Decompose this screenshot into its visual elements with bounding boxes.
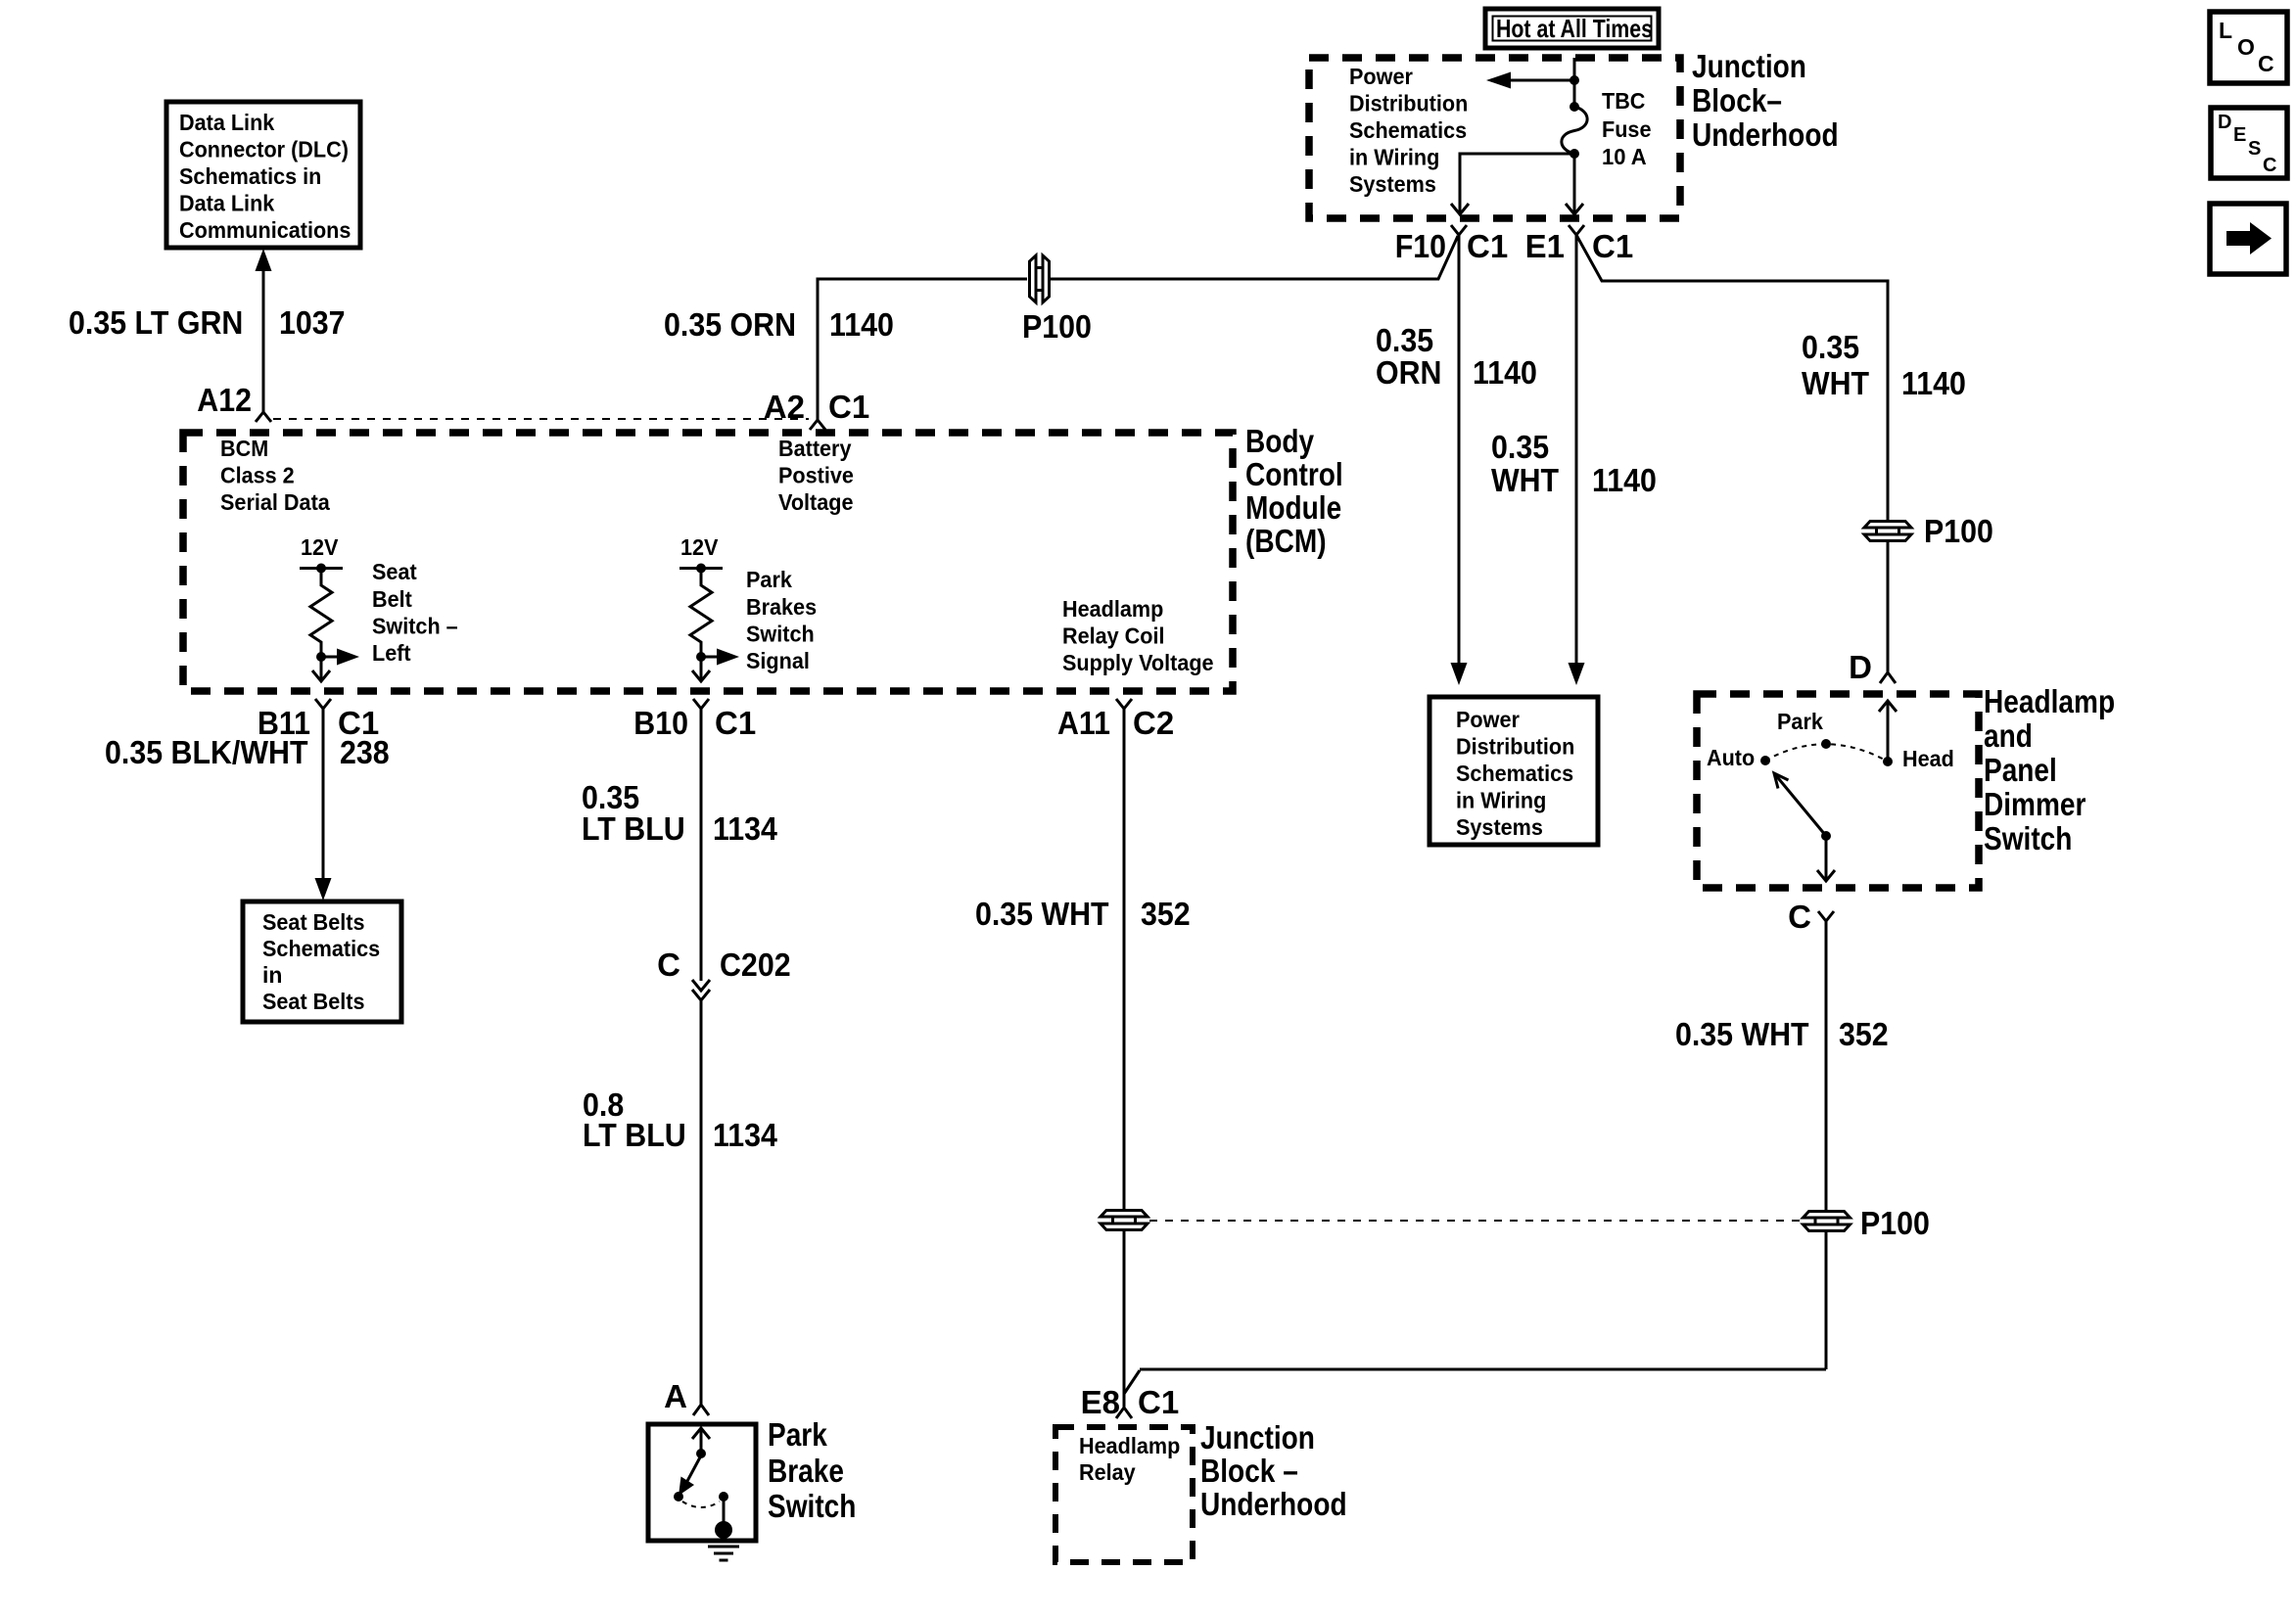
connector C202 pass-through (double chevron) xyxy=(657,947,790,1000)
label: Junction Block-Underhood (top) xyxy=(1692,48,1839,153)
component: Park Brake Switch box xyxy=(648,1424,756,1541)
box: DESC legend xyxy=(2211,108,2287,178)
svg-text:0.35: 0.35 xyxy=(1802,329,1859,365)
svg-text:C1: C1 xyxy=(828,389,869,425)
svg-text:C1: C1 xyxy=(1138,1384,1179,1420)
wire: park brake sense to pin B10 xyxy=(700,657,703,679)
svg-text:Hot at All Times: Hot at All Times xyxy=(1496,14,1653,43)
svg-text:WHT: WHT xyxy=(1491,462,1559,498)
svg-text:E: E xyxy=(2233,124,2246,146)
svg-text:Dimmer: Dimmer xyxy=(1984,786,2086,822)
dashed travel arc of dimmer switch xyxy=(1765,744,1888,762)
label: Park Brake Switch xyxy=(768,1416,856,1524)
arrow (open) entering dimmer switch at D xyxy=(1879,701,1897,712)
component: Headlamp Relay dashed box xyxy=(1055,1427,1193,1562)
svg-text:E1: E1 xyxy=(1525,228,1565,264)
svg-text:Schematics: Schematics xyxy=(1456,761,1573,786)
svg-text:Supply Voltage: Supply Voltage xyxy=(1062,650,1214,675)
node: dimmer switch pivot xyxy=(1821,831,1831,841)
svg-text:Head: Head xyxy=(1902,746,1954,771)
svg-text:Fuse: Fuse xyxy=(1602,116,1652,142)
label: Seat Belt Switch - Left xyxy=(372,559,458,666)
switch arm with arrowhead xyxy=(679,1455,701,1496)
svg-text:1140: 1140 xyxy=(1473,354,1537,391)
box: Seat Belts schematic reference xyxy=(243,901,401,1022)
svg-text:Underhood: Underhood xyxy=(1200,1486,1347,1522)
svg-text:Park: Park xyxy=(1777,709,1823,734)
pin A park brake switch connector fork xyxy=(664,1378,709,1415)
pin C dimmer switch connector fork xyxy=(1788,899,1834,935)
svg-text:A12: A12 xyxy=(197,382,252,418)
label: wire 0.35 BLK/WHT 238 xyxy=(105,734,390,770)
pin B11 connector fork xyxy=(258,699,379,741)
resistor: seat belt switch pull-up xyxy=(310,569,332,658)
svg-text:P100: P100 xyxy=(1860,1205,1930,1241)
svg-text:Park: Park xyxy=(746,567,792,592)
svg-text:P100: P100 xyxy=(1924,513,1993,549)
svg-text:Schematics: Schematics xyxy=(1349,117,1467,143)
wire: fuse output to E1 xyxy=(1573,154,1576,212)
arrowhead into power distribution box xyxy=(1451,663,1468,685)
svg-text:C: C xyxy=(2258,51,2274,76)
svg-text:B10: B10 xyxy=(633,705,688,741)
svg-text:352: 352 xyxy=(1839,1016,1889,1052)
label: Park Brakes Switch Signal xyxy=(746,567,817,673)
svg-text:Voltage: Voltage xyxy=(778,489,854,515)
svg-text:0.35: 0.35 xyxy=(1376,322,1433,358)
node: 12V supply seat belt switch pull-up xyxy=(300,534,343,574)
node: ground stud on box edge xyxy=(715,1521,732,1539)
svg-text:E8: E8 xyxy=(1081,1384,1120,1420)
svg-text:ORN: ORN xyxy=(1376,354,1442,391)
svg-text:352: 352 xyxy=(1141,896,1191,932)
wire: D to Head contact xyxy=(1887,701,1890,759)
svg-text:Headlamp: Headlamp xyxy=(1079,1433,1180,1458)
svg-text:1140: 1140 xyxy=(1592,462,1657,498)
svg-text:1037: 1037 xyxy=(279,304,346,341)
label: Headlamp and Panel Dimmer Switch xyxy=(1984,683,2115,856)
svg-text:Left: Left xyxy=(372,640,411,666)
svg-text:A2: A2 xyxy=(764,389,805,425)
svg-text:C1: C1 xyxy=(1467,228,1508,264)
arrow (open) at BCM boundary xyxy=(692,670,710,681)
svg-text:S: S xyxy=(2248,138,2261,160)
svg-text:C1: C1 xyxy=(715,705,756,741)
wire: LT GRN 1037 serial data to DLC xyxy=(262,266,265,412)
svg-text:Power: Power xyxy=(1456,707,1520,732)
svg-text:Systems: Systems xyxy=(1456,814,1543,840)
svg-text:Distribution: Distribution xyxy=(1456,734,1574,760)
pin D dimmer switch connector fork xyxy=(1849,649,1896,685)
svg-text:C202: C202 xyxy=(720,947,791,983)
label: wire 0.35 LT GRN 1037 xyxy=(69,304,346,341)
svg-text:Switch: Switch xyxy=(768,1488,856,1524)
svg-text:Brake: Brake xyxy=(768,1453,844,1489)
svg-text:Communications: Communications xyxy=(179,217,351,243)
connector P100 pass-through on 352 wire xyxy=(1801,1205,1930,1241)
pin A2 connector fork xyxy=(764,389,869,430)
component: Junction Block-Underhood dashed box (top) xyxy=(1309,58,1680,218)
arrowhead into seat belts box xyxy=(315,878,332,901)
svg-text:Systems: Systems xyxy=(1349,171,1436,197)
svg-text:L: L xyxy=(2219,18,2232,43)
svg-text:Headlamp: Headlamp xyxy=(1062,596,1163,622)
connector P100 pass-through on right WHT wire xyxy=(1862,513,1993,549)
arrow (open) at junction block boundary F10 xyxy=(1451,204,1469,214)
svg-text:Battery: Battery xyxy=(778,436,852,461)
svg-text:Module: Module xyxy=(1245,489,1341,526)
pin E8 connector fork xyxy=(1081,1384,1180,1420)
box: Data Link Connector (DLC) reference xyxy=(166,102,360,248)
wire: 0.35 WHT 352 from C to P100 xyxy=(1825,921,1828,1369)
node: Auto contact xyxy=(1707,745,1770,770)
arrow (open) at dimmer switch boundary C xyxy=(1817,870,1835,881)
label: TBC Fuse 10 A xyxy=(1602,88,1652,169)
svg-text:Schematics in: Schematics in xyxy=(179,163,321,189)
wire: dashed link A12 to A2 xyxy=(273,418,809,420)
label: wire 0.35 ORN 1140 (horizontal run) xyxy=(664,306,894,343)
label: Headlamp Relay Coil Supply Voltage xyxy=(1062,596,1214,675)
label: BCM Class 2 Serial Data xyxy=(220,436,330,515)
svg-text:Switch –: Switch – xyxy=(372,614,458,639)
wire: 0.35 WHT 352 from A11 to E8 xyxy=(1123,709,1126,1408)
label: wire 0.35 LT BLU 1134 xyxy=(582,779,777,847)
svg-text:LT BLU: LT BLU xyxy=(582,810,685,847)
arrow (open) at BCM boundary xyxy=(312,670,330,681)
svg-text:12V: 12V xyxy=(301,534,339,560)
svg-text:in Wiring: in Wiring xyxy=(1456,788,1546,813)
module: Body Control Module (BCM) dashed outline xyxy=(183,433,1233,691)
svg-text:10 A: 10 A xyxy=(1602,144,1647,169)
svg-text:0.35 LT GRN: 0.35 LT GRN xyxy=(69,304,243,341)
svg-text:Switch: Switch xyxy=(746,622,815,647)
switch lever with open arrowhead toward Auto xyxy=(1774,773,1826,836)
wire: pivot to C pin xyxy=(1825,836,1828,879)
svg-text:LT BLU: LT BLU xyxy=(583,1117,686,1153)
svg-text:Switch: Switch xyxy=(1984,820,2072,856)
svg-text:Data Link: Data Link xyxy=(179,110,274,135)
svg-text:Brakes: Brakes xyxy=(746,594,817,620)
svg-text:C1: C1 xyxy=(1592,228,1633,264)
pin E1 connector fork xyxy=(1525,225,1634,264)
svg-text:BCM: BCM xyxy=(220,436,268,461)
label: Battery Postive Voltage xyxy=(778,436,854,515)
svg-text:12V: 12V xyxy=(680,534,719,560)
resistor: park brake switch pull-up xyxy=(690,569,712,658)
svg-text:1134: 1134 xyxy=(713,1117,777,1153)
svg-text:Park: Park xyxy=(768,1416,827,1453)
svg-text:D: D xyxy=(1849,649,1872,685)
svg-text:Panel: Panel xyxy=(1984,752,2057,788)
node: fuse bottom terminal xyxy=(1570,149,1579,159)
svg-text:Block–: Block– xyxy=(1692,82,1782,118)
fuse: TBC Fuse 10 A xyxy=(1562,107,1587,154)
svg-text:Signal: Signal xyxy=(746,648,810,673)
node: switch right contact xyxy=(719,1492,728,1501)
pin B10 connector fork xyxy=(633,699,756,741)
svg-text:A11: A11 xyxy=(1057,705,1110,741)
box: Power Distribution schematic reference xyxy=(1429,697,1598,845)
node: Park contact xyxy=(1777,709,1831,749)
pin A12 connector fork on BCM xyxy=(197,382,271,422)
wire: F10 feed down to power distribution xyxy=(1458,235,1461,664)
pin F10 connector fork xyxy=(1395,225,1508,264)
label: wire 0.35 WHT 1140 (right run) xyxy=(1802,329,1966,401)
label: wire 0.35 WHT 1140 (E1 drop) xyxy=(1491,429,1657,498)
svg-text:C2: C2 xyxy=(1133,705,1174,741)
svg-text:TBC: TBC xyxy=(1602,88,1645,114)
svg-text:Belt: Belt xyxy=(372,586,412,612)
svg-text:Headlamp: Headlamp xyxy=(1984,683,2115,719)
svg-text:0.35 WHT: 0.35 WHT xyxy=(1675,1016,1809,1052)
wire: dashed P100 connector tie line xyxy=(1149,1220,1801,1222)
svg-text:Relay Coil: Relay Coil xyxy=(1062,624,1165,649)
wire: battery feed from hot bus xyxy=(1573,58,1576,107)
arrow (open) entering park brake switch xyxy=(692,1428,710,1439)
svg-text:in: in xyxy=(262,962,282,988)
svg-text:Block –: Block – xyxy=(1200,1453,1298,1489)
svg-text:Seat: Seat xyxy=(372,559,417,584)
svg-text:P100: P100 xyxy=(1022,308,1092,345)
svg-text:Power: Power xyxy=(1349,64,1413,89)
component: Headlamp and Panel Dimmer Switch dashed box xyxy=(1697,694,1979,888)
svg-text:238: 238 xyxy=(340,734,390,770)
pin A11 connector fork xyxy=(1057,699,1174,741)
svg-text:and: and xyxy=(1984,717,2033,754)
wire: seat belt sense to pin B11 xyxy=(320,657,323,679)
svg-text:O: O xyxy=(2237,34,2255,60)
svg-text:Junction: Junction xyxy=(1692,48,1806,84)
svg-text:1134: 1134 xyxy=(713,810,777,847)
svg-text:Body: Body xyxy=(1245,423,1315,459)
svg-text:in Wiring: in Wiring xyxy=(1349,145,1439,170)
svg-text:0.35 ORN: 0.35 ORN xyxy=(664,306,796,343)
wire: 0.35 LT BLU 1134 from B10 to C202 xyxy=(700,709,703,981)
svg-text:C: C xyxy=(1788,899,1811,935)
node: hot bus junction xyxy=(1570,75,1579,85)
svg-text:A: A xyxy=(664,1378,687,1414)
node: seat belt sense junction with arrow xyxy=(316,649,359,666)
svg-text:Relay: Relay xyxy=(1079,1459,1136,1485)
svg-text:C: C xyxy=(2263,155,2276,176)
arrowhead into power distribution box xyxy=(1569,663,1585,685)
arrow (open) at junction block boundary E1 xyxy=(1566,204,1583,214)
svg-text:Seat Belts: Seat Belts xyxy=(262,989,365,1014)
svg-text:Underhood: Underhood xyxy=(1692,116,1839,153)
node: Head contact xyxy=(1883,746,1954,771)
svg-text:Schematics: Schematics xyxy=(262,936,380,961)
svg-text:0.35 WHT: 0.35 WHT xyxy=(975,896,1109,932)
svg-text:F10: F10 xyxy=(1395,228,1446,264)
node: 12V supply park brake switch pull-up xyxy=(679,534,723,574)
label: Junction Block - Underhood (lower) xyxy=(1200,1419,1347,1522)
svg-text:D: D xyxy=(2218,112,2231,133)
label: wire 0.35 WHT 352 xyxy=(975,896,1191,932)
wire: 352 run to E8 junction xyxy=(1140,1368,1826,1371)
box: Hot at All Times (double border) xyxy=(1485,9,1659,48)
wire: branch to power distribution with arrowhead xyxy=(1486,72,1574,89)
svg-text:Junction: Junction xyxy=(1200,1419,1315,1455)
svg-text:Auto: Auto xyxy=(1707,745,1755,770)
arrowhead into DLC box xyxy=(256,249,272,271)
dashed travel arc of park brake switch xyxy=(682,1501,720,1507)
label: Power Distribution Schematics in Wiring Systems (in junction block) xyxy=(1349,64,1468,197)
connector P100 pass-through on A11 wire xyxy=(1099,1209,1149,1231)
svg-text:Connector (DLC): Connector (DLC) xyxy=(179,137,349,162)
wire: 0.35 ORN 1140 from BCM A2 to F10 xyxy=(818,236,1458,420)
svg-text:0.35 BLK/WHT: 0.35 BLK/WHT xyxy=(105,734,308,770)
wire: 0.35 WHT 1140 from E1 to dimmer switch D xyxy=(1576,235,1888,672)
svg-text:1140: 1140 xyxy=(1901,365,1966,401)
box: LOC legend xyxy=(2210,12,2287,83)
svg-text:Serial Data: Serial Data xyxy=(220,489,330,515)
svg-text:(BCM): (BCM) xyxy=(1245,523,1327,559)
svg-text:1140: 1140 xyxy=(829,306,894,343)
wire: right contact to ground xyxy=(723,1497,726,1527)
wire: switch common xyxy=(700,1428,703,1454)
svg-text:C: C xyxy=(657,947,680,983)
svg-text:Class 2: Class 2 xyxy=(220,463,295,488)
node: switch common contact xyxy=(696,1449,706,1458)
label: Body Control Module (BCM) xyxy=(1245,423,1343,559)
node: switch left contact xyxy=(674,1492,683,1501)
connector P100 pass-through on ORN wire xyxy=(1022,255,1092,345)
wire: fuse output branch to F10 xyxy=(1460,154,1574,212)
box: next-page arrow legend xyxy=(2210,204,2286,274)
label: wire 0.8 LT BLU 1134 xyxy=(583,1086,777,1153)
label: wire 0.35 ORN 1140 (F10 drop) xyxy=(1376,322,1537,391)
svg-text:Distribution: Distribution xyxy=(1349,91,1468,116)
svg-text:Data Link: Data Link xyxy=(179,191,274,216)
svg-text:Postive: Postive xyxy=(778,463,854,488)
svg-text:0.35: 0.35 xyxy=(1491,429,1549,465)
svg-text:Control: Control xyxy=(1245,456,1343,492)
node: park brake sense junction with arrow xyxy=(696,649,739,666)
wire: merge diagonal from dimmer switch branch xyxy=(1124,1370,1140,1394)
wire: 0.35 BLK/WHT 238 to seat belts schematic xyxy=(322,709,325,881)
ground symbol xyxy=(708,1547,739,1560)
label: wire 0.35 WHT 352 (right) xyxy=(1675,1016,1889,1052)
wire: 0.8 LT BLU 1134 from C202 to park brake switch xyxy=(700,1000,703,1405)
svg-text:WHT: WHT xyxy=(1802,365,1869,401)
svg-text:Seat Belts: Seat Belts xyxy=(262,909,365,935)
node: fuse top terminal xyxy=(1570,102,1579,112)
wire: E1 feed down to power distribution xyxy=(1575,235,1578,664)
